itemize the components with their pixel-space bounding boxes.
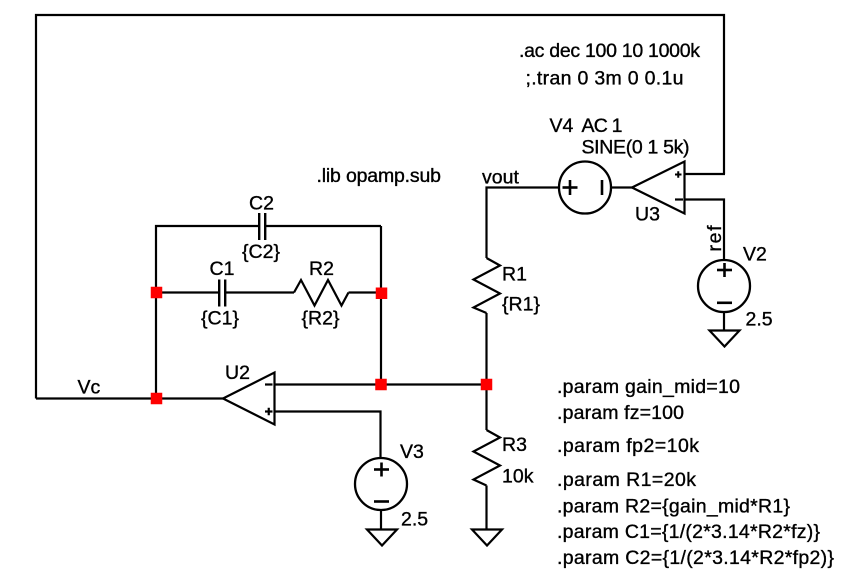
ground of V3 <box>367 530 397 546</box>
svg-text:V4: V4 <box>550 115 574 137</box>
svg-text:SINE(0 1 5k): SINE(0 1 5k) <box>582 137 690 159</box>
svg-text:R2: R2 <box>309 258 334 280</box>
capacitor C1 <box>219 280 225 307</box>
svg-text:{R1}: {R1} <box>502 294 540 316</box>
svg-text:ref: ref <box>704 225 726 252</box>
wire U3 plus input <box>685 173 726 175</box>
svg-text:10k: 10k <box>502 466 534 488</box>
op-amp U3 <box>632 162 685 214</box>
wire mid row (U2 minus to R1/R3 junction) <box>275 383 487 385</box>
voltage source V2 <box>698 260 750 312</box>
svg-text:;.tran 0 3m 0 0.1u: ;.tran 0 3m 0 0.1u <box>526 68 684 90</box>
junction node Vc <box>151 393 163 405</box>
wire left rail <box>155 293 157 399</box>
wire top loop <box>36 15 724 399</box>
ground of R3 <box>472 530 502 546</box>
wire U2 plus input to V3 <box>275 412 381 459</box>
wire R3 to ground <box>485 486 487 530</box>
wire V2 to ground <box>723 312 725 331</box>
svg-text:U2: U2 <box>225 362 250 384</box>
wire Vc row <box>36 397 223 399</box>
svg-text:2.5: 2.5 <box>401 509 428 531</box>
svg-text:AC 1: AC 1 <box>582 115 623 137</box>
voltage source V4 <box>559 162 611 214</box>
junction node R1 R3 <box>481 379 493 391</box>
wire top row C2 <box>156 226 259 293</box>
wire right rail <box>380 226 382 385</box>
svg-text:Vc: Vc <box>78 377 101 399</box>
junction node left C1 row <box>151 287 163 299</box>
svg-text:.param C1={1/(2*3.14*R2*fz)}: .param C1={1/(2*3.14*R2*fz)} <box>557 521 820 543</box>
wire C1 to R2 <box>225 291 294 293</box>
voltage source V3 <box>355 458 407 510</box>
wire V3 to ground <box>380 511 382 530</box>
svg-text:.param R2={gain_mid*R1}: .param R2={gain_mid*R1} <box>557 496 790 518</box>
resistor R2 <box>294 280 349 306</box>
svg-text:C2: C2 <box>249 193 274 215</box>
op-amp U2 <box>223 373 275 425</box>
svg-text:{R2}: {R2} <box>302 308 340 330</box>
svg-text:vout: vout <box>482 167 519 189</box>
resistor R1 <box>474 258 501 313</box>
svg-text:.lib opamp.sub: .lib opamp.sub <box>317 165 442 187</box>
wire C1 row left <box>156 291 219 293</box>
svg-text:{C1}: {C1} <box>201 308 239 330</box>
resistor R3 <box>474 430 501 486</box>
svg-text:R1: R1 <box>502 264 527 286</box>
svg-text:.param C2={1/(2*3.14*R2*fp2)}: .param C2={1/(2*3.14*R2*fp2)} <box>557 547 834 569</box>
svg-text:.param gain_mid=10: .param gain_mid=10 <box>557 376 740 398</box>
wire vout to V4 <box>487 188 559 259</box>
svg-text:C1: C1 <box>210 258 235 280</box>
svg-text:.param R1=20k: .param R1=20k <box>557 469 696 491</box>
svg-text:.param fz=100: .param fz=100 <box>557 402 684 424</box>
svg-text:U3: U3 <box>635 204 660 226</box>
junction node right C1 row <box>376 288 388 300</box>
junction node right rail bottom <box>375 379 387 391</box>
svg-text:2.5: 2.5 <box>746 309 773 331</box>
wire R1 to junction <box>485 313 487 385</box>
capacitor C2 <box>259 213 265 240</box>
svg-text:V3: V3 <box>400 441 424 463</box>
wire R3 top <box>485 385 487 430</box>
svg-text:.param fp2=10k: .param fp2=10k <box>557 435 699 457</box>
wire R2 to right rail <box>349 291 382 293</box>
ground of V2 <box>710 331 740 347</box>
svg-text:.ac dec 100 10 1000k: .ac dec 100 10 1000k <box>519 40 700 62</box>
wire V4 to U3 <box>612 186 634 188</box>
svg-text:V2: V2 <box>743 244 767 266</box>
wire U3 minus input <box>685 200 725 261</box>
svg-text:{C2}: {C2} <box>242 241 280 263</box>
svg-text:R3: R3 <box>502 434 527 456</box>
